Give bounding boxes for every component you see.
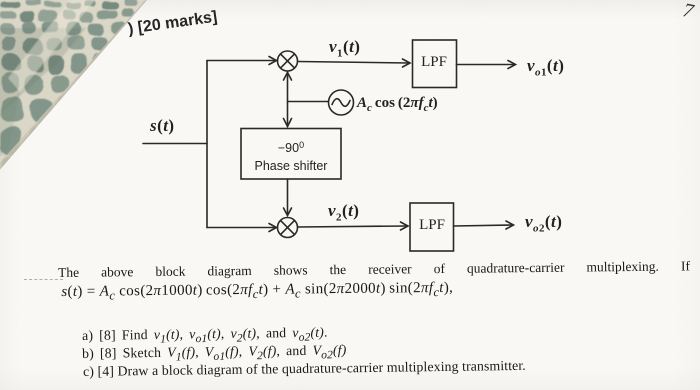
wire LPF1 output [457, 64, 515, 66]
oscillator source [329, 90, 354, 115]
label Ac cos [357, 95, 438, 114]
label vo2(t) [525, 212, 562, 234]
arrowhead up into M1 bottom [284, 73, 292, 81]
label s(t) [150, 116, 175, 136]
arrowhead down into phase shifter top [284, 119, 292, 127]
[20 marks] heading [127, 8, 218, 38]
arrowhead into M2 left [269, 224, 277, 232]
pencil dash [24, 279, 63, 280]
wire oscillator to junction [288, 101, 329, 103]
phase shifter box [241, 129, 341, 180]
multiplier M2 [278, 218, 298, 238]
LPF U2 box [410, 203, 454, 251]
wire phase shifter to M2 [287, 179, 289, 215]
wire trunk vertical [206, 61, 208, 228]
label LPF1 [412, 54, 456, 71]
list items [82, 325, 328, 347]
wire s(t) input [143, 143, 207, 145]
wire top branch [207, 60, 275, 62]
label v1(t) [329, 37, 360, 59]
paragraph [58, 258, 691, 303]
wire carrier vertical M1 to junction [287, 72, 289, 126]
multiplier M1 [278, 51, 298, 71]
label v2(t) [328, 201, 359, 223]
arrowhead into LPF2 [401, 222, 409, 230]
arrowhead into M2 top [284, 208, 292, 216]
fold shading [0, 28, 86, 118]
page edge shadow [0, 0, 148, 172]
wire M2 to LPF2 [298, 226, 407, 227]
wire LPF2 output [454, 225, 513, 226]
wire M1 to LPF1 [298, 62, 409, 64]
label LPF2 [410, 217, 454, 234]
arrowhead at vo1 [508, 61, 516, 69]
label phase shifter [241, 136, 341, 175]
page number 7 [681, 0, 696, 24]
arrowhead into LPF1 [403, 59, 411, 67]
arrowhead at vo2 [506, 221, 514, 229]
LPF U1 box [413, 40, 457, 88]
label vo1(t) [527, 56, 564, 78]
wire bottom branch [207, 227, 275, 229]
arrowhead into M1 left [269, 57, 277, 65]
